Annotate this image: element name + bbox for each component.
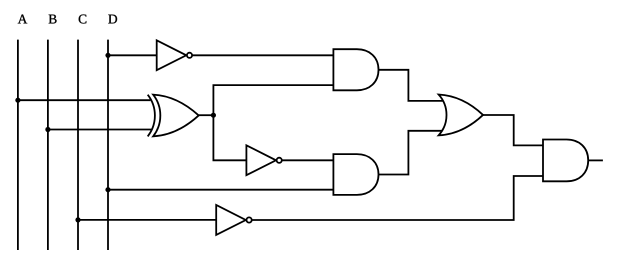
wire D to AND2 bottom input xyxy=(108,189,333,191)
input rail D xyxy=(107,40,109,250)
NOT gate U3 (middle inverter) xyxy=(246,145,281,175)
wire AND2 output to OR bottom input xyxy=(379,131,442,175)
input label B xyxy=(49,15,57,24)
input rail B xyxy=(47,40,49,250)
OR gate U6 xyxy=(439,95,483,136)
AND gate U8 (output) xyxy=(543,140,588,182)
NOT gate U7 (bottom inverter) xyxy=(216,205,252,235)
input rail C xyxy=(77,40,79,250)
input label D xyxy=(108,15,117,24)
output wire xyxy=(588,159,603,161)
junction on B xyxy=(45,127,50,132)
wire OR output to AND3 top input xyxy=(483,115,543,145)
XOR gate U2 xyxy=(148,95,199,137)
wire XOR output to junction node xyxy=(199,114,214,116)
wire A to XOR top input xyxy=(18,99,151,101)
input label C xyxy=(79,15,87,24)
junction on A xyxy=(15,98,20,103)
wire B to XOR bottom input xyxy=(48,129,151,131)
wire C to NOT3 input xyxy=(78,219,216,221)
AND gate U5 (bottom) xyxy=(333,154,378,195)
wire junction node down to NOT2 input xyxy=(213,115,246,160)
wire NOT3 output to AND3 bottom input xyxy=(252,176,543,220)
AND gate U4 (top) xyxy=(333,49,378,90)
junction on D at NOT1 tap xyxy=(105,53,110,58)
wire NOT1 output to AND1 top input xyxy=(192,54,333,56)
NOT gate U1 (inverter, top) xyxy=(157,40,192,70)
junction on D at AND2 tap xyxy=(105,187,110,192)
wire D to NOT1 input xyxy=(108,54,157,56)
junction node at XOR output xyxy=(211,113,216,118)
input label A xyxy=(18,15,27,24)
wire NOT2 output to AND2 top input xyxy=(282,159,334,161)
wire junction node up to AND1 bottom input xyxy=(213,85,333,115)
wire AND1 output to OR top input xyxy=(379,70,443,101)
junction on C xyxy=(75,217,80,222)
input rail A xyxy=(17,40,19,250)
